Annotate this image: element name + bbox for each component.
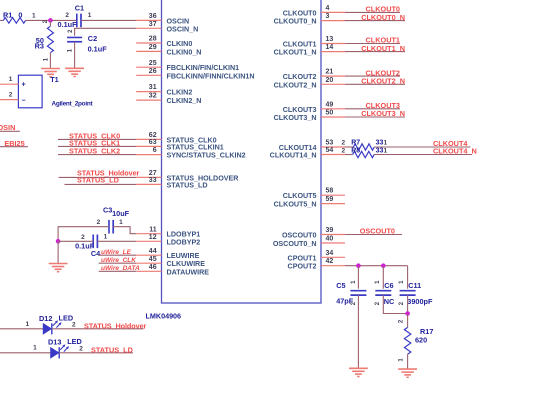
resistor R3 <box>35 19 54 61</box>
svg-text:50: 50 <box>326 110 334 117</box>
IC U1 right pin 13 CLKOUT1 <box>283 36 345 49</box>
svg-text:2: 2 <box>81 234 85 241</box>
ground under node B <box>49 263 68 265</box>
wire R7 to net CLKOUT4 <box>374 146 470 148</box>
svg-text:63: 63 <box>149 139 157 146</box>
svg-text:CLKUWIRE: CLKUWIRE <box>167 260 206 268</box>
IC U1 right pin 21 CLKOUT2 <box>283 69 345 82</box>
wire net STATUS_CLK2 <box>58 154 136 156</box>
svg-text:OSCOUT0_N: OSCOUT0_N <box>273 240 317 248</box>
svg-text:OSIN: OSIN <box>0 123 15 132</box>
wire net CPOUT2 from pin 42 <box>345 265 408 267</box>
svg-text:13: 13 <box>326 36 334 43</box>
LED D13 <box>33 337 83 358</box>
wire corner down to C11 <box>407 266 409 289</box>
svg-text:uWire_CLK: uWire_CLK <box>101 257 137 264</box>
wire net CLKOUT1_N <box>345 51 405 53</box>
wire C11 bottom to node C <box>407 295 409 313</box>
svg-text:54: 54 <box>326 147 334 154</box>
svg-text:0: 0 <box>18 11 22 20</box>
svg-text:3900pF: 3900pF <box>407 297 433 306</box>
svg-text:D12: D12 <box>39 314 52 323</box>
IC U1 left pin 26 FBCLKINN/FINN/CLKIN1N <box>136 68 254 80</box>
svg-text:STATUS_CLKIN1: STATUS_CLKIN1 <box>167 143 224 151</box>
svg-text:DATAUWIRE: DATAUWIRE <box>167 268 210 276</box>
IC U1 right pin 3 CLKOUT0_N <box>274 13 345 26</box>
wire net OSIN <box>0 130 20 132</box>
svg-text:FBCLKIN/FIN/CLKIN1: FBCLKIN/FIN/CLKIN1 <box>167 64 240 72</box>
svg-text:CLKOUT3_N: CLKOUT3_N <box>274 114 317 122</box>
capacitor C1 <box>58 3 92 29</box>
svg-text:59: 59 <box>326 196 334 203</box>
wire net STATUS_CLK0 <box>58 138 136 140</box>
svg-text:CLKOUT0: CLKOUT0 <box>283 9 317 17</box>
wire net CLKOUT0 <box>345 11 400 13</box>
svg-text:CLKIN0: CLKIN0 <box>167 40 193 48</box>
wire node C to R17 <box>407 314 409 328</box>
svg-text:−: − <box>22 98 26 105</box>
capacitor C5 <box>336 280 366 306</box>
wire C6 bottom to node C <box>383 295 407 313</box>
wire C2 to ground <box>74 42 76 69</box>
svg-text:1: 1 <box>383 147 387 154</box>
IC U1 left pin 45 CLKUWIRE <box>136 256 205 268</box>
node C junction dot <box>405 311 410 316</box>
svg-text:CLKOUT3_N: CLKOUT3_N <box>361 109 405 118</box>
T1 pin 2 <box>0 92 18 100</box>
svg-text:OSCIN: OSCIN <box>167 17 190 25</box>
svg-text:28: 28 <box>149 36 157 43</box>
svg-text:58: 58 <box>326 188 334 195</box>
IC U1 right pin 4 CLKOUT0 <box>283 5 345 18</box>
IC U1 left pin 11 LDOBYP1 <box>136 226 200 238</box>
svg-text:21: 21 <box>326 69 334 76</box>
IC U1 left pin 29 CLKIN0_N <box>136 44 201 56</box>
wire pin54 to R8 <box>345 154 353 156</box>
svg-text:STATUS_LD: STATUS_LD <box>77 175 119 184</box>
svg-text:2: 2 <box>65 12 69 19</box>
IC U1 right pin 34 CPOUT1 <box>288 250 345 262</box>
IC U1 left pin 63 STATUS_CLKIN1 <box>136 139 224 151</box>
svg-text:46: 46 <box>149 264 157 271</box>
svg-text:LED: LED <box>59 314 74 323</box>
IC U1 LMK04906 body <box>162 0 322 303</box>
svg-text:27: 27 <box>149 170 157 177</box>
wire left edge to D12 anode <box>0 328 43 330</box>
svg-text:uWire_DATA: uWire_DATA <box>101 265 140 272</box>
wire C5 to ground <box>357 295 359 368</box>
wire net CLKOUT2_N <box>345 83 405 85</box>
IC U1 left pin 28 CLKIN0 <box>136 36 192 48</box>
svg-text:2: 2 <box>72 322 76 329</box>
svg-text:1: 1 <box>119 219 123 226</box>
svg-text:33: 33 <box>149 177 157 184</box>
wire C4 to pin 12 (LDOBYP2) <box>97 240 136 242</box>
svg-text:CLKOUT5: CLKOUT5 <box>283 192 317 200</box>
svg-text:2: 2 <box>79 346 83 353</box>
svg-text:LDOBYP2: LDOBYP2 <box>167 238 201 246</box>
node B junction dot <box>56 239 61 244</box>
svg-text:CLKOUT1: CLKOUT1 <box>283 41 317 49</box>
svg-text:11: 11 <box>149 226 157 233</box>
wire net STATUS_Holdover <box>59 176 137 178</box>
svg-text:33: 33 <box>376 147 384 154</box>
IC U1 right pin 20 CLKOUT2_N <box>274 77 345 90</box>
IC U1 left pin 62 STATUS_CLK0 <box>136 132 216 144</box>
wire down to C6 <box>382 266 384 289</box>
IC U1 left pin 12 LDOBYP2 <box>136 234 200 246</box>
wire R17 to ground <box>407 354 409 369</box>
IC U1 right pin 49 CLKOUT3 <box>283 101 345 114</box>
svg-text:C3: C3 <box>103 206 112 215</box>
svg-text:620: 620 <box>415 335 427 344</box>
svg-text:CLKIN2: CLKIN2 <box>167 89 193 97</box>
svg-text:3: 3 <box>326 13 330 20</box>
transformer T1 Agilent_2point box <box>18 75 42 108</box>
wire left edge to D13 anode <box>0 352 51 354</box>
IC U1 right pin 58 CLKOUT5 <box>283 188 345 201</box>
svg-text:R7: R7 <box>351 140 360 147</box>
IC U1 left pin 32 CLKIN2_N <box>136 93 201 105</box>
svg-text:20: 20 <box>326 77 334 84</box>
svg-text:R8: R8 <box>351 148 360 155</box>
wire net CLKOUT3_N <box>345 116 405 118</box>
wire R3 to ground <box>49 20 51 26</box>
svg-text:CLKIN0_N: CLKIN0_N <box>167 48 202 56</box>
svg-text:CLKIN2_N: CLKIN2_N <box>167 97 202 105</box>
svg-text:49: 49 <box>326 101 334 108</box>
wire net uWire_CLK <box>99 262 137 264</box>
ground under R3 <box>41 68 60 70</box>
svg-text:T1: T1 <box>50 75 59 84</box>
svg-text:C6: C6 <box>384 281 393 290</box>
wire net CLKOUT2 <box>345 75 400 77</box>
IC U1 left pin 37 OSCIN_N <box>136 21 198 33</box>
IC U1 right pin 40 OSCOUT0_N <box>273 236 345 249</box>
resistor R8 <box>341 147 387 157</box>
svg-text:OSCIN_N: OSCIN_N <box>167 25 199 33</box>
svg-text:1: 1 <box>33 344 37 351</box>
svg-text:37: 37 <box>149 21 157 28</box>
svg-text:CPOUT1: CPOUT1 <box>288 254 317 262</box>
svg-text:42: 42 <box>326 258 334 265</box>
svg-text:1: 1 <box>25 321 29 328</box>
svg-text:29: 29 <box>149 44 157 51</box>
svg-text:+: + <box>22 82 26 89</box>
capacitor C2 <box>67 29 107 53</box>
IC U1 right pin 42 CPOUT2 <box>288 258 345 271</box>
svg-text:CPOUT2: CPOUT2 <box>288 263 317 271</box>
svg-text:39: 39 <box>326 227 334 234</box>
wire net CLKOUT0_N <box>345 20 405 22</box>
svg-text:STATUS_Holdover: STATUS_Holdover <box>84 322 147 331</box>
resistor R17 <box>398 319 433 362</box>
wire net STATUS_CLK1 <box>58 145 136 147</box>
junction dot at C5 top <box>356 263 361 268</box>
svg-text:STATUS_CLK2: STATUS_CLK2 <box>69 147 120 156</box>
capacitor C3 <box>97 206 130 234</box>
svg-text:CLKOUT4_N: CLKOUT4_N <box>433 146 477 155</box>
svg-text:26: 26 <box>149 68 157 75</box>
svg-text:2: 2 <box>341 140 345 147</box>
svg-text:C2: C2 <box>88 34 97 43</box>
IC U1 right pin 59 CLKOUT5_N <box>274 196 345 209</box>
wire node B to C4 <box>58 240 93 242</box>
svg-text:1: 1 <box>32 12 36 19</box>
svg-text:36: 36 <box>149 13 157 20</box>
wire C3 left to junction node B <box>58 227 109 242</box>
IC U1 left pin 46 DATAUWIRE <box>136 264 209 276</box>
IC U1 left pin 44 LEUWIRE <box>136 248 199 260</box>
IC U1 right pin 14 CLKOUT1_N <box>274 44 345 57</box>
svg-text:1: 1 <box>383 140 387 147</box>
svg-text:14: 14 <box>326 44 334 51</box>
ground under C5 <box>349 367 368 369</box>
wire node B to ground <box>57 241 59 263</box>
svg-text:LEUWIRE: LEUWIRE <box>167 252 200 260</box>
svg-text:STATUS_LD: STATUS_LD <box>91 345 133 354</box>
svg-text:2: 2 <box>341 147 345 154</box>
wire D12 cathode to net STATUS_Holdover <box>52 328 144 330</box>
capacitor C4 <box>75 233 107 258</box>
wire C3 right to pin 11 (LDOBYP1) <box>113 227 136 234</box>
svg-text:FBCLKINN/FINN/CLKIN1N: FBCLKINN/FINN/CLKIN1N <box>167 72 255 80</box>
svg-text:SYNC/STATUS_CLKIN2: SYNC/STATUS_CLKIN2 <box>167 152 246 160</box>
svg-text:2: 2 <box>97 219 101 226</box>
svg-text:25: 25 <box>149 60 157 67</box>
svg-text:62: 62 <box>149 132 157 139</box>
svg-text:uWire_LE: uWire_LE <box>101 249 132 256</box>
IC U1 left pin 31 CLKIN2 <box>136 84 192 96</box>
capacitor C11 <box>399 280 433 306</box>
svg-text:C1: C1 <box>75 3 84 12</box>
svg-text:CLKOUT1_N: CLKOUT1_N <box>361 44 405 53</box>
svg-text:CLKOUT2_N: CLKOUT2_N <box>361 77 405 86</box>
wire R1 to node A (junction) <box>26 19 77 21</box>
svg-text:33: 33 <box>376 140 384 147</box>
svg-text:D13: D13 <box>48 337 61 346</box>
resistor R1 <box>3 11 36 24</box>
svg-text:4: 4 <box>326 5 330 12</box>
wire net EBI25 <box>0 146 28 148</box>
svg-text:CLKOUT0_N: CLKOUT0_N <box>361 13 405 22</box>
wire net CLKOUT3 <box>345 108 400 110</box>
IC U1 right pin 39 OSCOUT0 <box>282 227 345 240</box>
svg-text:Agilent_2point: Agilent_2point <box>52 101 94 108</box>
IC U1 right pin 50 CLKOUT3_N <box>274 110 345 123</box>
LED D12 <box>25 314 76 335</box>
svg-text:0.1uF: 0.1uF <box>88 44 108 53</box>
svg-text:1: 1 <box>9 76 13 83</box>
svg-text:CLKOUT2_N: CLKOUT2_N <box>274 81 317 89</box>
IC U1 right pin 53 CLKOUT14 <box>279 140 345 153</box>
T1 pin 1 <box>0 76 18 84</box>
capacitor C6 <box>375 280 395 306</box>
svg-text:CLKOUT3: CLKOUT3 <box>283 106 317 114</box>
IC U1 left pin 33 STATUS_LD <box>136 177 207 189</box>
svg-text:53: 53 <box>326 140 334 147</box>
wire net uWire_DATA <box>99 270 137 272</box>
svg-text:40: 40 <box>326 236 334 243</box>
svg-text:C5: C5 <box>336 281 345 290</box>
svg-text:OSCOUT0: OSCOUT0 <box>360 227 395 236</box>
svg-text:32: 32 <box>149 93 157 100</box>
svg-text:OSCOUT0: OSCOUT0 <box>282 232 317 240</box>
IC U1 left pin 25 FBCLKIN/FIN/CLKIN1 <box>136 60 239 72</box>
resistor R7 <box>341 140 387 151</box>
svg-text:CLKOUT14_N: CLKOUT14_N <box>270 152 317 160</box>
ground under C2 <box>65 67 84 69</box>
wire R8 to net CLKOUT4_N <box>374 154 472 156</box>
svg-text:34: 34 <box>326 250 334 257</box>
svg-text:6: 6 <box>153 147 157 154</box>
IC U1 right pin 54 CLKOUT14_N <box>270 147 345 160</box>
svg-text:R1: R1 <box>3 11 12 20</box>
svg-text:STATUS_LD: STATUS_LD <box>167 181 208 189</box>
svg-text:31: 31 <box>149 84 157 91</box>
wire D13 cathode to net STATUS_LD <box>59 352 133 354</box>
svg-text:R3: R3 <box>35 41 44 50</box>
svg-text:CLKOUT5_N: CLKOUT5_N <box>274 201 317 209</box>
wire net STATUS_LD <box>65 183 137 185</box>
svg-text:45: 45 <box>149 256 157 263</box>
IC U1 left pin 6 SYNC/STATUS_CLKIN2 <box>136 147 245 159</box>
svg-text:1: 1 <box>88 12 92 19</box>
svg-text:1: 1 <box>104 233 108 240</box>
IC U1 left pin 27 STATUS_HOLDOVER <box>136 170 239 182</box>
svg-text:CLKOUT1_N: CLKOUT1_N <box>274 49 317 57</box>
svg-text:CLKOUT0_N: CLKOUT0_N <box>274 18 317 26</box>
ground under R17 <box>398 368 417 370</box>
wire net CLKOUT1 <box>345 43 400 45</box>
svg-text:CLKOUT2: CLKOUT2 <box>283 73 317 81</box>
wire net OSCOUT0 <box>345 234 402 236</box>
svg-text:2: 2 <box>9 92 13 99</box>
wire down to C5 <box>357 266 359 289</box>
wire net uWire_LE <box>99 254 137 256</box>
node A junction dot <box>48 18 53 23</box>
svg-text:12: 12 <box>149 234 157 241</box>
svg-text:NC: NC <box>384 297 395 306</box>
svg-text:44: 44 <box>149 248 157 255</box>
wire left edge to R1 <box>0 19 3 21</box>
svg-text:C4: C4 <box>91 249 101 258</box>
svg-text:LMK04906: LMK04906 <box>146 312 182 321</box>
svg-text:10uF: 10uF <box>112 209 130 218</box>
IC U1 left pin 36 OSCIN <box>136 13 189 25</box>
svg-text:C11: C11 <box>408 281 421 290</box>
wire pin53 to R7 <box>345 146 353 148</box>
junction dot at C6 top <box>381 263 386 268</box>
wire pin 37 to C2 (net OSCIN_N) <box>75 28 137 35</box>
wire C1 to pin 36 (net OSCIN) <box>81 19 136 21</box>
